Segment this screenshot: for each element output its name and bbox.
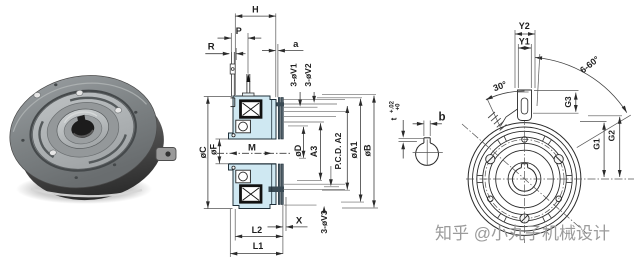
dimension oB (373, 96, 375, 208)
arc ext line 31deg (577, 115, 631, 148)
keyway detail crosshair (413, 152, 443, 154)
dimension H (235, 15, 275, 17)
svg-text:A3: A3 (309, 146, 319, 158)
dimension X (268, 226, 283, 228)
screw head bracket (234, 98, 236, 107)
label 3-oV1 (299, 92, 301, 101)
svg-text:6-60°: 6-60° (578, 54, 602, 75)
dimension Y2 (515, 33, 535, 35)
front inner circle (496, 150, 554, 208)
svg-text:Y1: Y1 (519, 37, 530, 47)
keyway ext lines (399, 137, 424, 139)
clutch body lower section (229, 164, 277, 209)
ext lines lower right (284, 183, 345, 185)
svg-text:R: R (208, 42, 215, 53)
svg-text:3-øV1: 3-øV1 (289, 63, 299, 86)
front screws (486, 155, 495, 164)
front bore circle (513, 168, 537, 192)
front lead wires (501, 109, 518, 126)
dimension t (402, 120, 404, 132)
svg-text:a: a (293, 39, 299, 50)
coil upper (241, 101, 262, 118)
dimension Y1 (518, 47, 531, 49)
svg-text:øD: øD (293, 144, 303, 156)
mounting bolt lower (269, 187, 285, 193)
tap hole upper (277, 102, 285, 106)
front terminal block (518, 90, 532, 121)
armature plates lower (278, 164, 283, 205)
dimension PCD A2 (346, 106, 348, 190)
dimension P (218, 37, 232, 39)
clutch body upper section (229, 96, 277, 139)
dimension L1 (230, 253, 283, 255)
ext lines oF (216, 138, 229, 140)
svg-text:P.C.D. A2: P.C.D. A2 (333, 132, 343, 169)
front mid circle (489, 143, 560, 214)
front centerline horizontal (466, 178, 634, 180)
extra stack line (330, 166, 332, 182)
ext lines Y (514, 30, 516, 88)
dimension G3 (575, 93, 577, 112)
coil lower (241, 186, 262, 203)
front ring circle (473, 127, 577, 231)
front outer circle (468, 123, 581, 236)
svg-text:3-øV2: 3-øV2 (303, 63, 313, 86)
svg-text:øB: øB (362, 144, 372, 156)
svg-text:L1: L1 (253, 241, 264, 251)
terminal screw (242, 74, 254, 97)
front small holes (522, 137, 528, 143)
svg-text:30°: 30° (492, 79, 509, 93)
photo terminal tab (156, 148, 176, 161)
svg-text:P: P (236, 26, 242, 36)
front segment spokes (566, 181, 572, 183)
svg-text:3-øV3: 3-øV3 (319, 210, 329, 233)
rotor joint upper (271, 100, 273, 140)
photo bottom rim highlight (31, 189, 142, 196)
svg-text:H: H (252, 5, 259, 15)
dimension G2 (619, 117, 621, 177)
front centerline diagonal (462, 124, 587, 234)
svg-text:X: X (296, 216, 303, 227)
svg-text:øC: øC (198, 146, 208, 158)
dimension oD (303, 127, 305, 158)
dimension 30deg (486, 91, 525, 100)
svg-text:Y2: Y2 (519, 21, 530, 31)
bearing upper (232, 120, 251, 137)
svg-text:知乎 @小丸子机械设计: 知乎 @小丸子机械设计 (435, 224, 610, 243)
dimension oF (218, 139, 220, 163)
dimension b (423, 121, 425, 137)
ext lines G (534, 90, 579, 92)
ext lines upper right (283, 99, 345, 101)
front bolt circle (485, 140, 564, 219)
armature plates upper (278, 98, 283, 140)
svg-text:b: b (438, 111, 445, 123)
svg-text:G3: G3 (563, 96, 573, 108)
svg-text:G2: G2 (607, 130, 617, 142)
label 3-oV2 (313, 92, 315, 98)
svg-text:t: t (389, 117, 398, 120)
front centerline vertical (524, 90, 526, 243)
svg-text:M: M (248, 143, 256, 154)
ext lines bottom (282, 205, 284, 254)
svg-text:L2: L2 (252, 225, 263, 235)
photo shadow (16, 174, 152, 204)
svg-text:G1: G1 (591, 138, 601, 150)
photo clutch (1, 63, 173, 212)
dimension oA1 (360, 99, 362, 202)
dimension 6-60deg (535, 58, 627, 113)
arc ext line 86deg (537, 54, 540, 106)
dimension G1 (603, 123, 605, 177)
keyway detail bore circle (416, 143, 439, 165)
rotor joint lower (271, 164, 273, 205)
dimension L2 (235, 235, 283, 237)
svg-text:+0: +0 (396, 103, 402, 111)
front hub circle (508, 163, 541, 196)
svg-text:øA1: øA1 (349, 141, 359, 158)
front flange circle (483, 137, 567, 221)
dimension A3 (320, 123, 322, 180)
front pad circle (477, 131, 572, 226)
dimension R (205, 53, 229, 55)
ext lines oC (204, 96, 232, 98)
lead wire (230, 52, 235, 96)
bore lines (229, 138, 277, 140)
front radial line 115deg (487, 98, 501, 129)
dimension oC (207, 97, 209, 209)
section centerline (217, 152, 292, 154)
ext lines top (234, 13, 236, 95)
dimension M (230, 151, 237, 155)
label 3-oV3 (323, 209, 325, 211)
dimension a (262, 50, 275, 52)
svg-text:øF: øF (209, 144, 219, 155)
bearing lower (232, 166, 251, 183)
